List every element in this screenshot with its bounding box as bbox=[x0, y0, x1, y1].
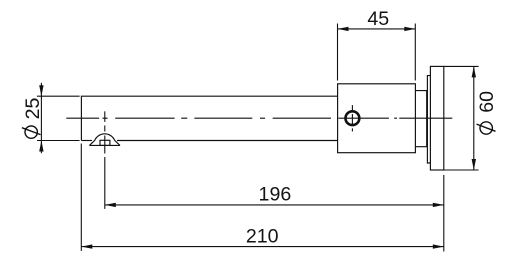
svg-text:25: 25 bbox=[22, 98, 44, 120]
washer ring bbox=[427, 76, 430, 163]
ball slot rectangle bbox=[100, 140, 110, 145]
dim Ø60 line bbox=[473, 66, 475, 170]
svg-text:45: 45 bbox=[367, 8, 389, 30]
button vertical centerline bbox=[351, 105, 353, 131]
shaft body outline bbox=[81, 96, 337, 140]
dim 210 arrows bbox=[81, 244, 444, 248]
dim Ø60 diameter symbol slash bbox=[477, 124, 496, 131]
ball detent dome bbox=[89, 134, 120, 146]
dim Ø60 extension lines bbox=[444, 66, 479, 170]
flange head disc bbox=[430, 66, 443, 170]
dim 196 line bbox=[105, 204, 444, 206]
handle body (sleeve) bbox=[338, 84, 416, 153]
main horizontal centerline bbox=[66, 117, 452, 119]
dim Ø25 diameter symbol circle bbox=[25, 126, 37, 138]
dim 196 extension line left bbox=[104, 161, 106, 209]
dim Ø25 extension lines bbox=[37, 96, 80, 140]
dim Ø25 line bbox=[40, 83, 42, 153]
ball vertical centerline bbox=[104, 111, 106, 160]
svg-text:60: 60 bbox=[476, 91, 498, 113]
dim 45 arrows bbox=[338, 27, 416, 31]
dim 210 extension line left bbox=[80, 144, 82, 251]
dim Ø25 arrows bbox=[39, 85, 43, 151]
dim 196 arrows bbox=[105, 203, 444, 207]
dim Ø60 diameter symbol circle bbox=[480, 122, 492, 134]
dim 210 line bbox=[81, 246, 444, 248]
push button ball circle bbox=[346, 111, 360, 125]
svg-text:196: 196 bbox=[259, 184, 292, 206]
dim Ø60 arrows bbox=[472, 66, 476, 170]
dim 196/210 shared right extension line bbox=[443, 175, 445, 252]
svg-text:210: 210 bbox=[246, 225, 279, 247]
neck step bbox=[415, 91, 426, 147]
dim 45 line bbox=[338, 28, 416, 30]
dim 45 extension lines bbox=[338, 24, 416, 81]
dim Ø25 diameter symbol slash bbox=[22, 128, 41, 135]
